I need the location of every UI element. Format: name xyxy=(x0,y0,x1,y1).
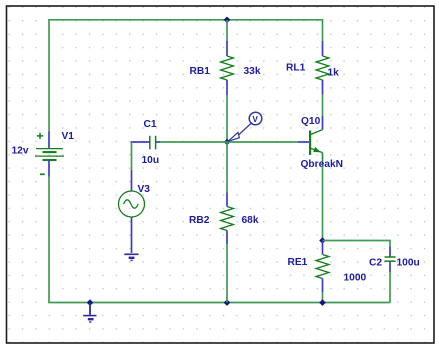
label 33k xyxy=(244,66,261,77)
resistor RB2 xyxy=(221,193,234,245)
svg-text:V: V xyxy=(253,115,259,124)
svg-text:100u: 100u xyxy=(397,258,420,269)
svg-text:V1: V1 xyxy=(62,131,75,142)
label QbreakN xyxy=(301,159,343,170)
label 12v xyxy=(12,146,29,157)
junction ground node xyxy=(87,299,94,306)
wire left rail lower (V1 minus to bottom rail) xyxy=(48,177,50,303)
svg-text:C1: C1 xyxy=(144,119,157,130)
label 10u xyxy=(142,155,160,166)
wire C2 to bottom rail xyxy=(389,272,391,303)
ground at bottom rail xyxy=(83,303,96,322)
V3 bottom pin xyxy=(131,217,133,253)
label 100u xyxy=(397,258,420,269)
wire left rail upper (V1 plus to top rail) xyxy=(48,19,50,132)
capacitor C1 xyxy=(131,136,160,150)
svg-text:Q10: Q10 xyxy=(301,116,321,127)
svg-text:68k: 68k xyxy=(242,215,259,226)
V1 negative pin xyxy=(48,160,50,177)
label RB1 xyxy=(190,66,211,77)
resistor RL1 xyxy=(316,41,329,94)
transistor Q10 xyxy=(310,116,322,166)
voltage probe V xyxy=(228,112,262,141)
label Q10 xyxy=(301,116,321,127)
wire top rail from V1 to RL1 xyxy=(49,19,323,21)
svg-text:C2: C2 xyxy=(369,258,382,269)
junction RE1 bottom xyxy=(319,299,326,306)
svg-text:RL1: RL1 xyxy=(286,63,306,74)
label RE1 xyxy=(288,257,308,268)
svg-text:33k: 33k xyxy=(244,66,261,77)
label C1 xyxy=(144,119,157,130)
wire emitter to RE1 node xyxy=(322,166,324,241)
label V3 xyxy=(138,184,151,195)
svg-text:12v: 12v xyxy=(12,146,29,157)
svg-text:1k: 1k xyxy=(328,68,340,79)
wire RE1 to bottom rail xyxy=(322,292,324,303)
battery V1 xyxy=(35,133,64,175)
label C2 xyxy=(369,258,382,269)
wire bottom rail xyxy=(48,302,390,304)
label 68k xyxy=(242,215,259,226)
resistor RE1 xyxy=(316,241,329,293)
Q10 base pin xyxy=(298,141,310,143)
label V1 xyxy=(62,131,75,142)
junction emitter node xyxy=(319,237,326,244)
wire C1 to V3 corner xyxy=(131,142,133,170)
svg-text:RB1: RB1 xyxy=(190,66,211,77)
junction RB2 bottom xyxy=(224,299,231,306)
label RL1 xyxy=(286,63,306,74)
svg-text:10u: 10u xyxy=(142,155,160,166)
svg-text:V3: V3 xyxy=(138,184,151,195)
wire RL1 to collector xyxy=(322,94,324,116)
V3 top pin xyxy=(131,170,133,192)
ground under V3 xyxy=(124,254,138,260)
junction top rail / RB1 xyxy=(224,17,231,24)
resistor RB1 xyxy=(221,41,234,95)
wire RB2 column upper xyxy=(226,142,228,193)
ac source V3 xyxy=(119,191,145,217)
label 1000 xyxy=(344,273,367,284)
capacitor C2 xyxy=(385,247,396,272)
svg-text:1000: 1000 xyxy=(344,273,367,284)
label 1k xyxy=(328,68,340,79)
wire RB2 to bottom rail xyxy=(226,244,228,303)
svg-text:RB2: RB2 xyxy=(189,215,210,226)
wire RB1 column lower xyxy=(226,95,228,142)
wire RB1 column upper xyxy=(226,20,228,41)
junction mid node xyxy=(224,139,231,146)
wire mid node to Q10 base xyxy=(227,141,298,143)
wire emitter node to C2 top xyxy=(323,241,391,248)
wire RL1 column upper xyxy=(322,19,324,41)
wire mid node to C1 xyxy=(160,141,227,143)
V1 positive pin xyxy=(48,132,50,149)
svg-text:RE1: RE1 xyxy=(288,257,308,268)
label RB2 xyxy=(189,215,210,226)
